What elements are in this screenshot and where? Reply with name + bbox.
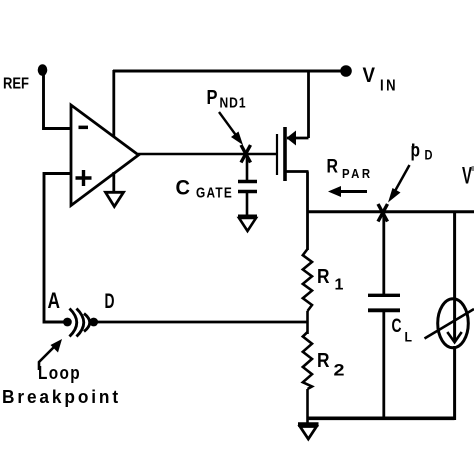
svg-text:Loop: Loop: [38, 363, 81, 383]
svg-text:L: L: [405, 329, 413, 345]
svg-text:V: V: [363, 64, 376, 87]
wire R2 bottom to ground rail: [306, 389, 309, 425]
node A dot: [63, 318, 72, 327]
wire REF to inverting input: [44, 70, 71, 129]
label R2: [317, 350, 345, 380]
arrow P_ND1 pointer: [219, 112, 243, 145]
svg-text:C: C: [176, 177, 191, 200]
svg-text:ND1: ND1: [220, 95, 247, 112]
svg-text:1: 1: [335, 277, 344, 294]
wire drain down to R1: [306, 172, 309, 251]
label R1: [317, 266, 344, 294]
svg-text:R: R: [317, 266, 330, 288]
node X mark P_ND1 breakpoint: [241, 145, 251, 163]
wire bottom rail: [308, 416, 455, 420]
wire op-amp supply drop: [112, 70, 115, 137]
wire R1 bottom to node: [306, 311, 309, 334]
svg-text:p: p: [411, 141, 421, 162]
arrow loop breakpoint pointer: [39, 339, 62, 370]
wire source up to Vin rail: [307, 71, 310, 138]
label p_D: [411, 141, 433, 163]
label R_PAR: [327, 157, 373, 181]
resistor R1: [303, 249, 312, 311]
label C_L: [392, 316, 413, 345]
svg-text:C: C: [392, 316, 402, 337]
wire current source top lead: [453, 212, 456, 342]
svg-text:V: V: [462, 163, 472, 190]
node REF dot: [38, 64, 48, 76]
node D dot: [89, 318, 98, 327]
svg-text:A: A: [48, 288, 61, 313]
svg-text:PAR: PAR: [342, 166, 373, 181]
svg-text:R: R: [327, 157, 339, 178]
svg-text:GATE: GATE: [196, 186, 233, 202]
ground bottom: [298, 425, 319, 440]
arrow R_PAR pointer: [328, 186, 367, 197]
svg-text:D: D: [425, 147, 433, 163]
wire output rail Vout: [308, 210, 474, 213]
transistor M1 PMOS gate bar: [276, 134, 278, 175]
node X mark p_D breakpoint: [378, 204, 388, 222]
svg-text:REF: REF: [3, 76, 29, 93]
node VIN dot: [340, 65, 352, 77]
transistor M1 channel bar: [283, 127, 287, 181]
ground op-amp: [106, 192, 124, 206]
wire op-amp output to gate: [138, 153, 276, 156]
label V_IN: [363, 64, 399, 94]
svg-text:IN: IN: [380, 77, 398, 94]
label P_ND1: [207, 86, 247, 112]
wire op-amp ground stub: [112, 172, 115, 193]
svg-text:2: 2: [334, 361, 345, 380]
svg-text:D: D: [105, 290, 115, 313]
svg-text:P: P: [207, 86, 218, 109]
op-amp U1: [71, 105, 139, 206]
wire non-inverting input down to node A: [44, 174, 70, 323]
arrow p_D pointer: [388, 165, 410, 203]
ground C_GATE: [238, 217, 257, 232]
capacitor C_GATE: [238, 154, 257, 216]
wire feedback node to divider: [94, 321, 308, 324]
transistor M1 drain lead: [286, 170, 309, 173]
svg-text:R: R: [317, 350, 330, 372]
current source I_load: [425, 299, 474, 348]
label C_GATE: [176, 177, 234, 202]
capacitor C_L: [368, 212, 400, 419]
svg-text:Breakpoint: Breakpoint: [2, 387, 121, 407]
transistor M1 source lead with arrow: [287, 131, 309, 146]
breakpoint arcs: [70, 309, 90, 337]
wire top rail Vin: [113, 70, 346, 73]
wire current source bottom lead: [453, 346, 456, 420]
resistor R2: [303, 332, 312, 389]
